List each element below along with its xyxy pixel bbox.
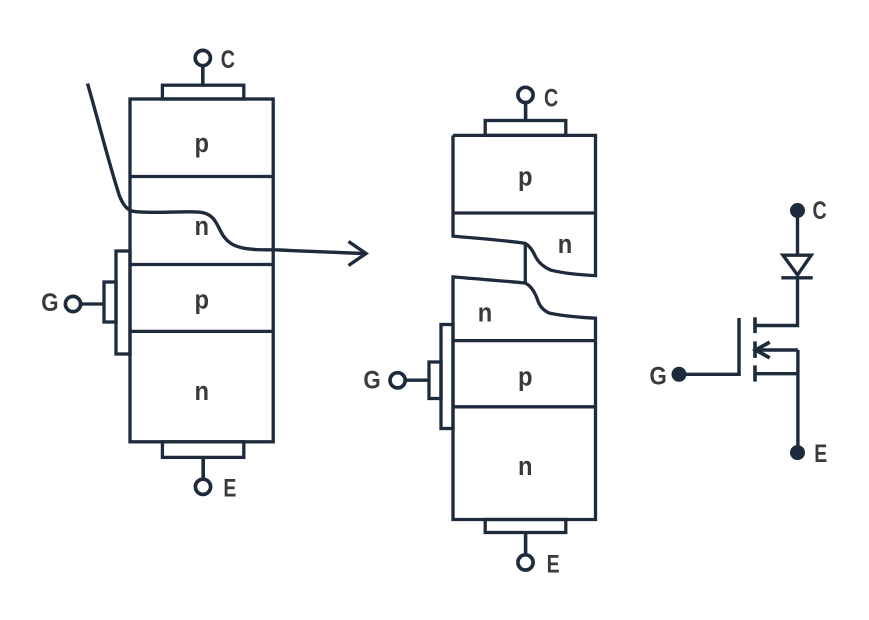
arrowhead: [349, 242, 367, 266]
gate terminal circle G (middle stack): [390, 373, 405, 388]
emitter terminal circle E (middle stack): [518, 555, 533, 570]
wire G lead (left stack): [81, 302, 104, 305]
emitter terminal circle E (left stack): [195, 479, 210, 494]
svg-text:p: p: [518, 362, 533, 392]
wire to emitter (symbol): [796, 350, 799, 447]
gate terminal circle G (left stack): [65, 296, 80, 311]
body rectangle (left stack): [130, 99, 273, 442]
wire C to diode: [796, 211, 799, 256]
emitter contact cap (left stack): [162, 442, 243, 458]
collector node dot C (symbol): [790, 203, 805, 218]
gate outer contact rect (left stack): [116, 251, 130, 354]
svg-text:E: E: [814, 440, 827, 468]
svg-text:n: n: [478, 297, 493, 327]
channel segment middle (symbol): [753, 341, 757, 358]
emitter contact cap (middle stack): [485, 520, 566, 533]
junction line p/n (left stack): [130, 175, 273, 178]
collector terminal circle C (middle stack): [518, 87, 533, 102]
gate inner contact rect (middle stack): [429, 362, 441, 399]
svg-text:G: G: [363, 366, 380, 394]
junction line p/n (middle stack upper block): [453, 211, 596, 214]
wire C stem (left stack): [201, 67, 205, 85]
wire diode to drain contact: [755, 278, 798, 326]
wire G lead (symbol): [679, 373, 741, 376]
collector terminal circle C (left stack): [195, 50, 210, 65]
svg-text:n: n: [518, 451, 533, 481]
junction line p/n (middle stack lower block): [453, 405, 596, 408]
wire C stem (middle stack): [524, 104, 528, 121]
svg-text:C: C: [221, 46, 235, 74]
svg-text:C: C: [544, 84, 558, 112]
callout curve: [88, 84, 364, 254]
svg-text:p: p: [518, 162, 533, 192]
wire E stem (left stack): [201, 457, 205, 478]
svg-text:p: p: [195, 128, 210, 158]
collector contact cap (middle stack): [485, 121, 566, 136]
gate outer contact rect (middle stack): [441, 325, 453, 429]
body arrowhead (symbol): [756, 342, 770, 358]
svg-text:p: p: [195, 285, 210, 315]
gate inner contact rect (left stack): [104, 282, 116, 322]
svg-text:n: n: [195, 376, 210, 406]
svg-text:E: E: [223, 474, 236, 502]
junction line n/p (left stack): [130, 263, 273, 266]
svg-text:n: n: [558, 229, 573, 259]
wire G lead (middle stack): [405, 379, 429, 382]
gate node dot G (symbol): [672, 367, 687, 382]
zoom callout curve through n layer with arrow: [88, 84, 367, 266]
wire E stem (middle stack): [524, 533, 528, 554]
lower torn block outline (middle stack): [453, 277, 596, 520]
svg-text:C: C: [813, 197, 827, 225]
emitter node dot E (symbol): [790, 445, 805, 460]
gate bar (symbol): [737, 318, 740, 376]
svg-text:E: E: [547, 551, 560, 579]
body arrow shaft (symbol): [758, 348, 798, 351]
channel segment bottom (symbol): [753, 365, 757, 381]
junction line n/p (middle stack lower block): [453, 339, 596, 342]
diode cathode bar: [781, 276, 812, 279]
junction line p/n lower (left stack): [130, 330, 273, 333]
collector contact cap (left stack): [162, 85, 243, 99]
svg-text:G: G: [41, 289, 58, 317]
source contact wire (symbol): [755, 372, 798, 375]
channel segment top (symbol): [753, 317, 757, 333]
diode triangle: [783, 255, 811, 275]
upper torn block outline (middle stack): [453, 135, 596, 275]
svg-text:G: G: [650, 362, 667, 390]
tear vertical line (middle stack): [524, 243, 527, 283]
